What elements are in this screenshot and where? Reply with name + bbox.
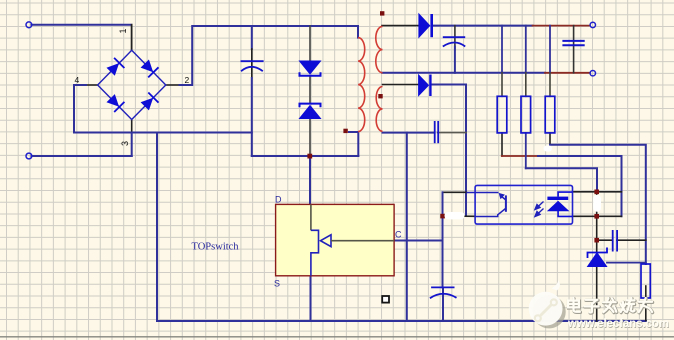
junction dot rail 3	[594, 238, 599, 243]
clamp diode D6 (points up)	[300, 104, 321, 119]
wire C1 bottom lead down to y156	[252, 78, 358, 156]
wire aux bottom to C4	[383, 132, 435, 134]
wire aux return x406.8 to ground	[406, 133, 408, 321]
TOPswitch internal MOSFET	[311, 204, 394, 275]
watermark url text	[567, 318, 670, 331]
optocoupler light arrows	[535, 202, 544, 217]
transformer polarity dot secondary	[380, 11, 384, 15]
svg-text:2: 2	[185, 75, 190, 85]
capacitor C2 output electrolytic	[443, 37, 465, 46]
capacitor C1 bulk electrolytic	[241, 61, 264, 71]
resistor R2	[521, 96, 531, 133]
svg-text:TOPswitch: TOPswitch	[192, 242, 240, 253]
wire bridge pin 2 stub	[166, 84, 180, 86]
wire secondary top black to D1	[382, 25, 419, 27]
watermark logo circle	[529, 280, 566, 328]
wire input terminal 2 to bridge pin 3	[32, 155, 132, 157]
wire R3 bottom right and down x645.8	[549, 133, 551, 145]
wire C6 leads	[597, 239, 613, 241]
output terminal -	[590, 71, 595, 76]
svg-text:C: C	[395, 230, 402, 240]
bridge rectifier B1 diamond	[98, 50, 166, 119]
capacitor C3 output filter	[562, 41, 584, 45]
svg-text:S: S	[274, 279, 280, 289]
junction dot rail 1	[594, 190, 599, 195]
no-connect square marker	[382, 296, 389, 303]
capacitor C5 control	[430, 287, 457, 298]
bridge diode bottom-right	[142, 93, 159, 110]
input terminal 2	[26, 153, 32, 159]
wire feedback red segment	[502, 155, 538, 157]
wire feedback navy to x621 down to dot2	[538, 156, 622, 216]
wire C pin to control net	[394, 240, 442, 242]
white watermark pill on control wire	[445, 212, 465, 219]
svg-text:www.elecfans.com: www.elecfans.com	[567, 318, 669, 330]
capacitor C4 feedback	[435, 121, 439, 143]
svg-text:D: D	[275, 195, 282, 205]
bottom sheet border	[0, 336, 674, 338]
wire control net down to C5	[442, 192, 444, 287]
junction dot control net	[440, 214, 445, 219]
diode D1 output rectifier	[419, 14, 432, 37]
wire zener jumper to R7	[607, 262, 646, 264]
wire opto emitter to dot	[443, 215, 476, 217]
wire y156 to drain	[309, 156, 311, 204]
svg-text:1: 1	[118, 28, 128, 33]
bridge diode bottom-left	[107, 95, 124, 112]
bridge diode top-right	[142, 60, 159, 77]
bridge diode top-left	[107, 58, 124, 75]
wire C2 leads	[454, 26, 456, 50]
transformer secondary winding	[376, 26, 383, 131]
output terminal +	[590, 22, 595, 27]
capacitor C6	[613, 230, 617, 252]
wire secondary bottom bus y73	[382, 72, 545, 74]
wire pin2 up to primary top bus	[180, 26, 359, 85]
wire D1 out to +V red to terminal	[433, 25, 533, 27]
optocoupler U2 box	[475, 185, 572, 224]
wire R1 bottom lead	[501, 133, 503, 156]
wire opto collector net	[443, 191, 467, 193]
resistor R7	[641, 264, 650, 298]
diode D2 aux rectifier	[419, 75, 431, 97]
clamp diode D5 (points down)	[300, 61, 321, 76]
watermark text 电子发烧友 (vector strokes)	[568, 298, 653, 313]
wire aux tap to D2	[383, 84, 419, 86]
resistor R1	[497, 96, 507, 133]
wire R2 top lead	[525, 26, 527, 73]
wire input terminal 1 to bridge pin 1	[32, 24, 132, 26]
svg-text:3: 3	[120, 141, 130, 146]
input terminal 1	[26, 22, 32, 28]
wire R2 bottom to rail and ground	[525, 133, 527, 168]
wire opto led pins to rail	[573, 191, 597, 193]
white watermark pill on R3 wire	[544, 146, 553, 152]
transformer polarity dot aux	[378, 94, 382, 98]
junction dot rail 2	[594, 214, 599, 219]
optocoupler phototransistor	[467, 193, 506, 217]
wire y156 horizontal (terminal2 net)	[252, 155, 358, 157]
resistor R3	[545, 96, 555, 133]
wire bridge pin 3 lead	[131, 120, 133, 134]
wire big left-bottom L: x157 down and ground bus	[157, 133, 646, 322]
wire pin4 down and right	[74, 85, 252, 133]
wire C1 top lead	[251, 26, 253, 49]
transformer polarity dot primary	[343, 129, 347, 133]
optocoupler LED	[547, 192, 572, 216]
white watermark pill on rail	[593, 195, 601, 212]
wire right rail	[596, 192, 598, 253]
wire C4 right to x466	[438, 132, 466, 134]
junction dot clamp bottom	[307, 154, 312, 159]
wire R3 top lead	[549, 26, 551, 73]
wire S pin lead	[310, 276, 312, 321]
wire bridge pin 4 stub	[86, 84, 98, 86]
wire D2 out right and down	[431, 85, 466, 217]
wire R1 top lead	[501, 26, 503, 73]
wire C3 leads	[573, 26, 575, 46]
zener diode D7	[588, 248, 608, 267]
wire R7 bottom lead	[645, 286, 647, 321]
TOPswitch U1 body	[276, 204, 395, 275]
wire clamp diode column	[309, 26, 311, 61]
wire C5 bottom lead	[442, 288, 444, 321]
svg-text:4: 4	[75, 75, 80, 85]
transformer T1 primary winding	[358, 38, 365, 132]
wire rail dot1 to x621	[597, 191, 622, 193]
